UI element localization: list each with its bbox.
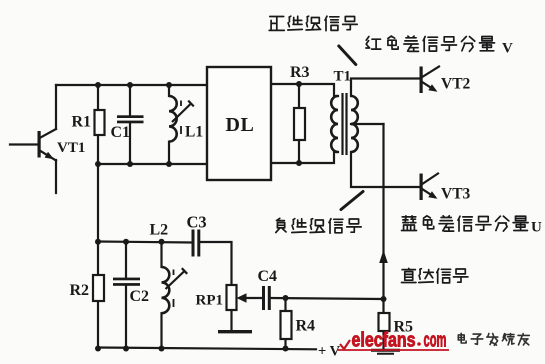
svg-text:VT3: VT3	[441, 186, 471, 203]
svg-text:elecfans: elecfans	[352, 330, 416, 352]
svg-text:T1: T1	[334, 69, 352, 85]
svg-text:+ V: + V	[318, 344, 341, 360]
svg-text:R2: R2	[70, 282, 90, 299]
svg-text:R4: R4	[296, 318, 316, 335]
svg-text:L2: L2	[150, 222, 169, 239]
svg-text:DL: DL	[226, 114, 255, 136]
svg-text:R3: R3	[290, 64, 310, 81]
svg-text:C2: C2	[130, 288, 150, 305]
svg-text:U: U	[531, 220, 542, 236]
svg-text:VT2: VT2	[441, 76, 471, 93]
svg-text:R1: R1	[72, 114, 92, 131]
svg-text:C3: C3	[187, 213, 207, 232]
svg-text:VT1: VT1	[57, 140, 85, 156]
svg-text:V: V	[502, 41, 513, 57]
svg-text:C1: C1	[111, 124, 131, 141]
svg-text:L1: L1	[185, 124, 203, 141]
svg-text:RP1: RP1	[196, 293, 224, 309]
svg-text:com: com	[424, 330, 447, 352]
svg-text:C4: C4	[258, 268, 278, 285]
